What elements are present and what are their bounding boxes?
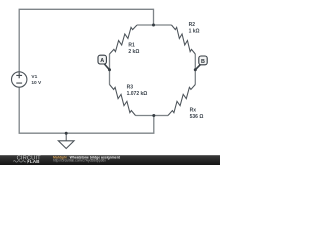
- footer bar: [0, 155, 220, 165]
- wire bottom node horizontal right: [154, 115, 168, 117]
- svg-text:http://circuitlab.com/c7Ayd58d: http://circuitlab.com/c7Ayd58dpp36x: [53, 159, 106, 163]
- label R1 designator and value: [128, 42, 139, 55]
- node A: [98, 55, 111, 71]
- label R3 designator and value: [127, 85, 148, 97]
- resistor Rx: [168, 85, 195, 116]
- wire node A vertical segment: [109, 54, 111, 85]
- label V1 designator and value: [31, 74, 42, 86]
- svg-text:10 V: 10 V: [31, 80, 42, 86]
- svg-text:1 kΩ: 1 kΩ: [189, 29, 200, 35]
- svg-text:V1: V1: [31, 74, 37, 80]
- svg-text:R3: R3: [127, 85, 134, 91]
- svg-text:1.072 kΩ: 1.072 kΩ: [127, 91, 148, 97]
- wire node B vertical segment: [194, 54, 196, 85]
- wire bottom loop from bottom node to V1: [19, 87, 154, 133]
- CircuitLab logo: [13, 155, 41, 164]
- resistor R1: [110, 25, 138, 54]
- svg-text:A: A: [100, 58, 104, 64]
- label Rx designator and value: [190, 107, 204, 119]
- wire top loop from V1 to top node: [19, 9, 153, 72]
- wire bottom node horizontal left: [136, 115, 154, 117]
- wire top node horizontal right: [154, 24, 172, 26]
- svg-text:R1: R1: [128, 42, 135, 48]
- ground: [58, 132, 74, 149]
- svg-text:LAB: LAB: [30, 159, 40, 164]
- label R2 designator and value: [189, 22, 200, 34]
- resistor R2: [172, 25, 196, 54]
- svg-text:2 kΩ: 2 kΩ: [128, 49, 139, 55]
- node top junction: [152, 24, 155, 27]
- svg-text:B: B: [201, 59, 205, 65]
- svg-text:Rx: Rx: [190, 107, 197, 113]
- svg-text:536 Ω: 536 Ω: [190, 114, 204, 120]
- voltage source V1: [12, 72, 27, 87]
- node bottom junction: [152, 114, 155, 117]
- wire top node horizontal left: [137, 24, 154, 26]
- footer title text: [53, 156, 121, 163]
- svg-text:R2: R2: [189, 22, 196, 28]
- resistor R3: [110, 85, 136, 116]
- node B: [194, 56, 207, 71]
